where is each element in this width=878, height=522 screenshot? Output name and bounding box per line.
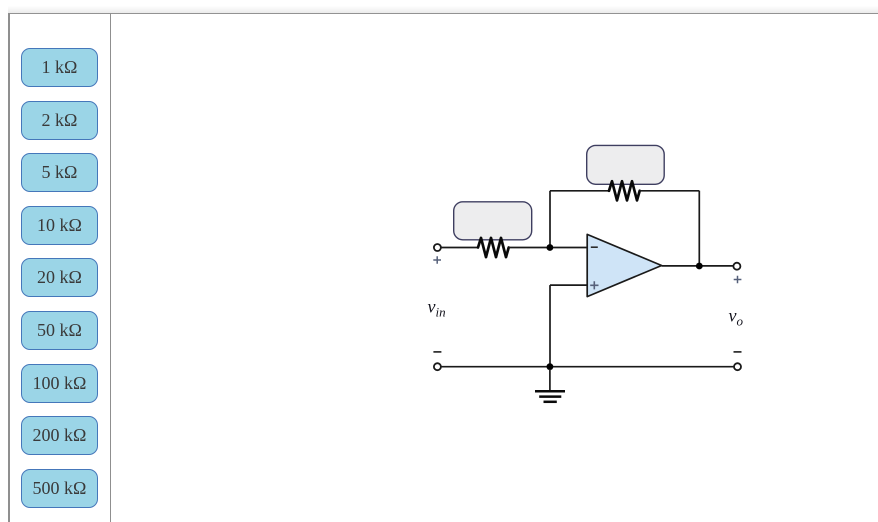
svg-text:vin: vin (428, 297, 446, 320)
bottom left terminal (434, 363, 441, 370)
input terminal (434, 244, 441, 251)
wire: node A up to feedback (549, 191, 551, 248)
output terminal (733, 263, 740, 270)
resistor R2 (feedback) (609, 181, 640, 200)
op-amp minus sign (591, 246, 598, 248)
toolbar bottom edge (8, 0, 878, 14)
resistor chip 50 kOhm (21, 311, 98, 350)
sidebar right rule (110, 13, 112, 522)
ground stub (549, 369, 551, 390)
resistor chip 10 kOhm (21, 206, 98, 245)
node A junction dot (547, 244, 554, 251)
plus label at output terminal (734, 276, 742, 284)
resistor chip 500 kOhm (21, 469, 98, 508)
resistor chip 100 kOhm (21, 364, 98, 403)
ground junction dot (547, 363, 554, 370)
wire: op-amp output to terminal (662, 265, 734, 267)
resistor chip 1 kOhm (21, 48, 98, 87)
plus label at input terminal (433, 256, 441, 264)
minus label above bottom-left terminal (433, 351, 441, 353)
op-amp U1 (587, 234, 661, 296)
resistor R1 (input) (478, 238, 509, 257)
wire: noninverting input down to ground rail (549, 285, 551, 367)
drop zone box for R2 (feedback) (587, 145, 665, 184)
wire: feedback right segment (640, 190, 700, 192)
wire: input terminal to R1 (441, 247, 478, 249)
resistor chip 5 kOhm (21, 153, 98, 192)
svg-text:vo: vo (729, 306, 744, 329)
resistor chip 2 kOhm (21, 101, 98, 140)
drop zone box for R1 (454, 202, 532, 240)
output node junction dot (696, 263, 703, 270)
wire: feedback left segment (550, 190, 609, 192)
resistor chip 20 kOhm (21, 258, 98, 297)
wire: feedback down to output node (698, 191, 700, 266)
wire: bottom rail (441, 366, 734, 368)
ground bar 3 (544, 401, 557, 404)
bottom right terminal (734, 363, 741, 370)
sidebar left rule (8, 13, 10, 522)
minus label above bottom-right terminal (734, 351, 742, 353)
op-amp plus sign (590, 281, 598, 289)
wire: R1 to op-amp inverting input (509, 247, 588, 249)
resistor chip 200 kOhm (21, 416, 98, 455)
ground bar 2 (539, 395, 561, 398)
wire: op-amp noninverting input leftward (550, 284, 587, 286)
ground bar 1 (535, 390, 565, 393)
